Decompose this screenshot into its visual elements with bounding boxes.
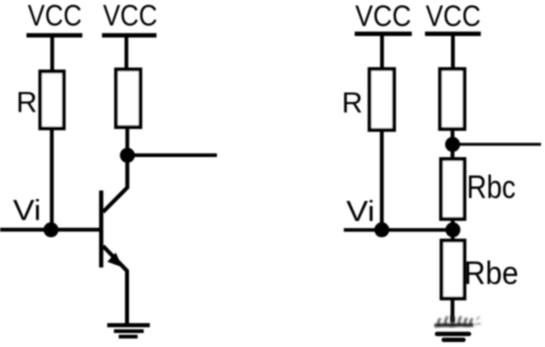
ground (right circuit) top bar with watermark smudge: [435, 323, 474, 327]
resistor Rbe: [442, 241, 465, 299]
wire R to node Vi: [50, 128, 54, 230]
collector node dot: [120, 148, 135, 163]
power bar VCC (left branch 2): [102, 33, 157, 37]
output node dot (right circuit): [445, 137, 460, 152]
ground (left circuit) bar 1: [107, 323, 150, 327]
watermark faint marks right of ground: [475, 317, 482, 325]
svg-text:VCC: VCC: [28, 0, 82, 33]
wire VCC1 to resistor R: [50, 35, 54, 72]
transistor Q1 emitter lead: [103, 246, 127, 325]
resistor upper pull-up (right circuit): [440, 69, 465, 129]
ground (left circuit) bar 3: [119, 335, 138, 339]
wire resistor to collector node: [125, 127, 129, 157]
svg-text:Rbc: Rbc: [467, 169, 516, 205]
svg-text:R: R: [342, 87, 363, 119]
power bar VCC (right branch 1): [355, 32, 412, 36]
node Vi junction dot (left circuit): [44, 222, 59, 237]
resistor R (left circuit): [40, 71, 64, 128]
ground (right circuit) bar 3: [444, 338, 464, 342]
ground (right circuit) bar 2: [437, 332, 469, 336]
watermark squiggle ticks over right ground: [438, 316, 472, 325]
svg-text:VCC: VCC: [426, 0, 481, 33]
power bar VCC (right branch 2): [425, 32, 481, 36]
resistor collector pull-up (left circuit): [116, 69, 140, 127]
node Vi junction dot (right circuit): [374, 222, 389, 237]
wire VCC4 to upper resistor: [451, 34, 455, 71]
svg-text:R: R: [16, 87, 37, 119]
output wire (right circuit): [453, 143, 542, 146]
wire Rbc to junction: [451, 218, 455, 241]
input wire Vi (right circuit): [344, 228, 453, 232]
wire VCC2 to collector resistor: [125, 35, 129, 71]
transistor Q1 collector lead: [103, 156, 127, 212]
wire VCC3 to resistor R: [380, 34, 384, 71]
svg-text:Vi: Vi: [346, 196, 375, 228]
svg-text:VCC: VCC: [355, 0, 411, 33]
transistor Q1 base bar: [99, 191, 103, 268]
wire resistor to output node (right circuit): [451, 128, 455, 160]
ground (left circuit) bar 2: [114, 329, 144, 333]
transistor Q1 emitter arrow: [107, 253, 122, 268]
svg-text:VCC: VCC: [103, 0, 158, 33]
svg-text:Vi: Vi: [13, 195, 41, 227]
wire Rbe to ground (right circuit): [451, 298, 455, 322]
wire R to node Vi (right circuit): [380, 130, 384, 230]
output wire (left circuit): [127, 153, 217, 157]
power bar VCC (left branch 1): [27, 33, 83, 37]
junction dot Rbc/Rbe/Vi: [445, 222, 460, 237]
resistor R (right circuit): [370, 69, 395, 130]
resistor Rbc: [441, 159, 465, 219]
input wire Vi (left circuit): [0, 228, 102, 232]
svg-text:Rbe: Rbe: [464, 255, 519, 291]
